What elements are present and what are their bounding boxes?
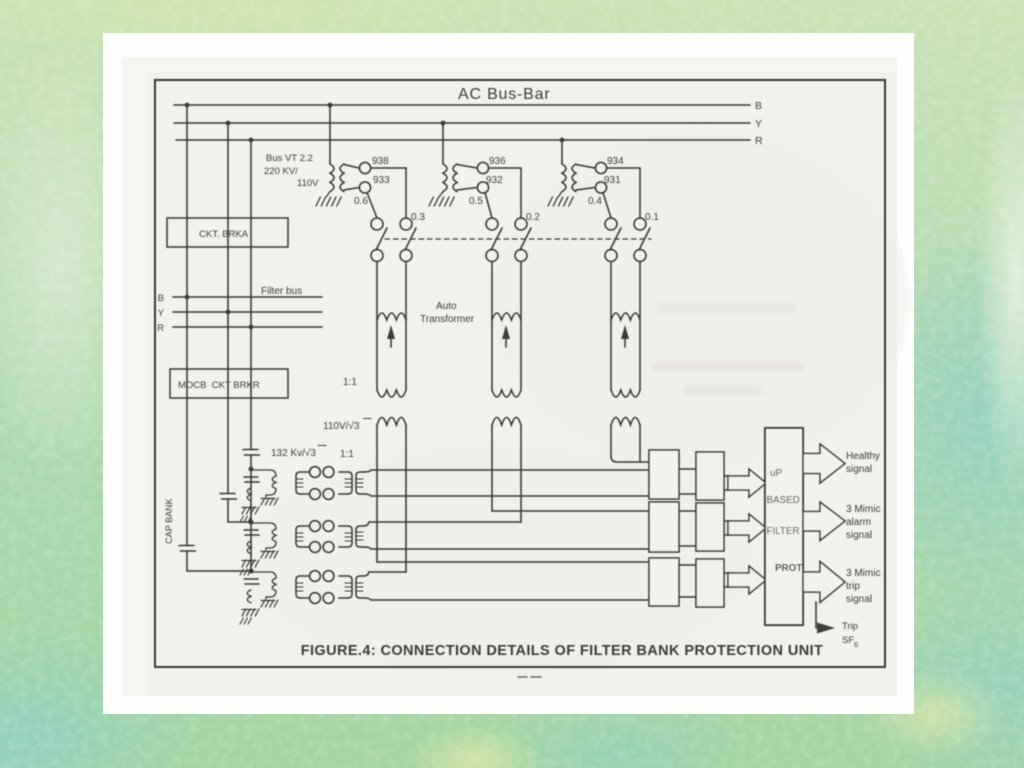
wire bus to VT 3 primary — [561, 140, 563, 164]
svg-text:trip: trip — [846, 581, 860, 592]
wire fuse 934 to right isolator pole — [607, 168, 640, 218]
interposing transformer row 2 right winding — [339, 526, 352, 547]
wire matching transformer 1 to relay A3 — [377, 561, 649, 563]
coupling circles row 2 — [310, 521, 334, 553]
svg-text:MOCB CKT BRKR: MOCB CKT BRKR — [178, 380, 260, 391]
svg-text:Bus VT 2.2: Bus VT 2.2 — [266, 153, 313, 164]
wire phase B drop to row 3 — [187, 551, 248, 571]
filter bus line Y — [173, 311, 322, 313]
isolator switch pole (group 1) at x=406 — [400, 218, 416, 320]
bus bar Y (phase Y) — [174, 122, 750, 124]
relay module box B3 — [696, 559, 724, 607]
node: VT tap on bus at x=330 — [328, 103, 333, 108]
Bus VT ratio label — [264, 153, 319, 189]
auto transformer 3 — [611, 313, 640, 397]
interposing transformer row 3 right winding — [339, 576, 352, 598]
matching transformer 1 winding — [377, 418, 406, 573]
ground marks row 3 main — [242, 609, 259, 616]
matching transformer 3 winding — [611, 418, 640, 463]
svg-text:Transformer: Transformer — [420, 314, 475, 325]
label Auto Transformer — [420, 301, 475, 325]
node: VT tap on bus at x=562 — [560, 138, 565, 143]
svg-text:BASED: BASED — [767, 495, 800, 506]
interposing transformer row 1 left winding — [296, 472, 309, 494]
coupling circles row 3 — [310, 571, 334, 604]
ground marks row 1 lower — [240, 516, 251, 522]
CVT tap branch row 2 — [251, 523, 276, 550]
fuse link 932 (bottom) — [477, 182, 488, 193]
svg-text:B: B — [158, 293, 164, 304]
bus bar B (phase B) — [174, 104, 750, 106]
svg-text:1:1: 1:1 — [343, 377, 357, 388]
relay module box B1 — [696, 452, 724, 500]
input arrow 2 into uP filter — [724, 514, 766, 542]
wire CVT stack row1 to row2 — [250, 469, 252, 522]
output arrow Healthy signal — [803, 444, 845, 483]
output winding row 1 — [356, 472, 364, 494]
svg-text:0.5: 0.5 — [469, 196, 483, 207]
wires between relay boxes row 2 — [679, 511, 696, 546]
wire VT 2 secondary to fuse 936 — [457, 165, 477, 169]
svg-text:Healthy: Healthy — [846, 451, 880, 462]
svg-text:Y: Y — [158, 308, 165, 319]
CVT junction node row 1 — [249, 467, 254, 472]
wire VT 3 secondary to fuse 934 — [576, 165, 595, 169]
fuse link 933 (bottom) — [359, 182, 370, 193]
wire bus to VT 2 primary — [442, 123, 444, 164]
interposing transformer row 2 left winding — [296, 526, 309, 547]
ground marks row 2 branch — [261, 551, 278, 558]
wires between relay boxes row 1 — [679, 469, 696, 494]
svg-text:uP: uP — [770, 468, 783, 479]
wire tap from bus B down to filter bus — [186, 105, 188, 297]
fuse link 931 (bottom) — [595, 182, 606, 193]
isolator switch pole (group 2) at x=521 — [515, 218, 531, 320]
svg-text:0.2: 0.2 — [526, 212, 540, 223]
svg-text:0.1: 0.1 — [645, 212, 659, 223]
wire tap from bus Y down to filter bus — [227, 123, 229, 312]
svg-text:931: 931 — [604, 175, 621, 186]
coupling circles row 1 — [310, 467, 334, 500]
aux winding row 1 — [247, 488, 251, 501]
white slide area — [103, 33, 914, 714]
svg-text:signal: signal — [846, 464, 872, 475]
ground below VT 1 primary — [316, 192, 341, 206]
svg-text:Y: Y — [755, 118, 762, 130]
grading capacitor row 2 — [244, 530, 259, 535]
input arrow 1 into uP filter — [724, 469, 766, 497]
input arrow 3 into uP filter — [724, 566, 766, 594]
bus VT 1 primary winding — [330, 164, 334, 192]
wire matching transformer 3 to relay A1 — [640, 461, 649, 463]
label 110V/sqrt3 — [323, 420, 360, 432]
svg-text:932: 932 — [486, 175, 503, 186]
ground marks row 2 lower — [240, 569, 251, 575]
output arrow 3 Mimic trip signal — [803, 562, 845, 603]
filter bus line B — [173, 296, 322, 298]
bus VT 2 secondary winding — [453, 164, 457, 192]
grading capacitor row 1 — [244, 477, 259, 482]
MOCB circuit breaker box — [170, 369, 288, 398]
svg-text:Trip: Trip — [842, 621, 858, 632]
svg-text:936: 936 — [489, 156, 506, 167]
isolator switch pole (group 1) at x=377 — [371, 218, 387, 320]
bus VT 2 primary winding — [443, 164, 447, 192]
wire row3 bottom to relay A3 — [364, 598, 649, 600]
svg-text:AC Bus-Bar: AC Bus-Bar — [458, 86, 550, 103]
fuse link 938 (top) — [359, 162, 370, 173]
svg-text:signal: signal — [846, 530, 872, 541]
svg-text:alarm: alarm — [846, 517, 871, 528]
interposing transformer row 3 left winding — [296, 576, 309, 598]
fuse link 934 (top) — [595, 162, 606, 173]
node: VT tap on bus at x=443 — [441, 121, 446, 126]
wire fuse 932 to left isolator pole — [485, 193, 492, 219]
output arrow 3 Mimic alarm signal — [803, 502, 845, 541]
svg-text:0.6: 0.6 — [354, 196, 368, 207]
wires between relay boxes row 3 — [679, 565, 696, 597]
svg-text:934: 934 — [607, 156, 624, 167]
schematic border frame — [155, 80, 885, 667]
isolator switch pole (group 3) at x=611 — [605, 218, 621, 320]
fuse link 936 (top) — [477, 162, 488, 173]
small mark below frame — [518, 676, 541, 678]
wire row1 bottom to relay A1 — [364, 494, 649, 496]
wire row1 top to relay A1 — [364, 470, 649, 472]
dashed interlock line across isolators — [385, 238, 651, 240]
svg-text:3 Mimic: 3 Mimic — [846, 504, 880, 515]
svg-text:B: B — [755, 100, 762, 112]
aux winding row 2 — [247, 541, 251, 554]
uP based filter protection unit box — [765, 428, 803, 625]
filter bus line R — [173, 326, 322, 328]
svg-text:1:1: 1:1 — [340, 449, 354, 460]
wire fuse 931 to left isolator pole — [603, 193, 611, 219]
relay module box A3 — [649, 558, 679, 606]
svg-text:signal: signal — [846, 594, 872, 605]
wire VT 1 secondary to fuse 933 — [344, 188, 359, 191]
auto transformer 2 — [492, 313, 521, 397]
svg-text:PROT: PROT — [775, 563, 802, 574]
svg-text:6: 6 — [854, 640, 858, 649]
interposing transformer row 1 right winding — [339, 472, 352, 494]
svg-text:CKT. BRKA: CKT. BRKA — [199, 229, 249, 240]
svg-text:R: R — [755, 135, 763, 147]
svg-text:Auto: Auto — [436, 301, 457, 312]
wires through MOCB box — [186, 297, 188, 545]
matching transformer 2 winding — [492, 418, 521, 523]
svg-text:3 Mimic: 3 Mimic — [846, 568, 880, 579]
bus VT 3 primary winding — [562, 164, 566, 192]
wire row2 top to matching transformer 2 — [364, 522, 521, 526]
svg-text:933: 933 — [373, 175, 390, 186]
wire VT 2 secondary to fuse 932 — [457, 188, 477, 191]
grading capacitor row 3 — [244, 579, 259, 584]
bus VT 3 secondary winding — [572, 164, 576, 192]
capacitor on phase B drop — [179, 546, 196, 552]
svg-text:R: R — [157, 323, 164, 334]
capacitor on phase R drop (132kV divider) — [243, 450, 260, 456]
svg-text:0.3: 0.3 — [411, 212, 425, 223]
wire VT 3 secondary to fuse 931 — [576, 188, 595, 191]
relay module box B2 — [696, 503, 724, 551]
ground marks row 3 branch — [261, 600, 278, 607]
wire row3 top to matching transformer 1 — [364, 572, 406, 576]
svg-text:132 Kv/√3: 132 Kv/√3 — [271, 447, 316, 459]
wire CVT stack row2 to row3 — [250, 522, 252, 571]
wire tap from bus R down to filter bus — [250, 140, 252, 327]
trip SF6 output wire and arrow — [816, 602, 835, 634]
ground below VT 3 primary — [548, 192, 573, 206]
ground below VT 2 primary — [429, 192, 454, 206]
CVT tap branch row 3 — [251, 572, 276, 599]
output winding row 3 — [356, 576, 364, 598]
CVT junction node row 2 — [249, 520, 254, 525]
output winding row 2 — [356, 526, 364, 547]
wire fuse 933 to left isolator pole — [367, 193, 377, 219]
isolator switch pole (group 2) at x=492 — [486, 218, 502, 320]
ground marks row 1 main — [242, 507, 259, 514]
faint ghost bleed-through marks — [652, 304, 804, 394]
auto transformer 1 — [377, 313, 406, 397]
svg-text:SF: SF — [842, 635, 854, 646]
svg-text:CAP BANK: CAP BANK — [164, 498, 174, 543]
svg-text:110V/√3: 110V/√3 — [323, 420, 360, 432]
wire matching transformer 2 to relay A2 — [492, 510, 649, 512]
wire fuse 938 to right isolator pole — [371, 168, 406, 218]
scanned paper area — [122, 57, 910, 696]
relay module box A2 — [649, 502, 679, 552]
bus bar R (phase R) — [176, 139, 750, 141]
wire row2 bottom to relay A2 — [364, 547, 649, 549]
ground marks row 1 branch — [261, 498, 278, 505]
wire bus to VT 1 primary — [329, 105, 331, 164]
svg-text:110V: 110V — [297, 178, 319, 189]
svg-text:FILTER: FILTER — [767, 526, 800, 537]
isolator switch pole (group 3) at x=640 — [634, 218, 650, 320]
CVT junction node row 3 — [249, 569, 254, 574]
wire fuse 936 to right isolator pole — [489, 168, 521, 218]
relay module box A1 — [649, 450, 679, 499]
svg-text:220 KV/: 220 KV/ — [264, 166, 298, 177]
svg-text:FIGURE.4: CONNECTION DETAILS O: FIGURE.4: CONNECTION DETAILS OF FILTER B… — [301, 643, 824, 659]
svg-text:938: 938 — [372, 156, 389, 167]
ground marks row 2 main — [242, 560, 259, 567]
bus VT 1 secondary winding — [340, 164, 344, 192]
CVT tap branch row 1 — [251, 470, 276, 497]
wire VT 1 secondary to fuse 938 — [344, 165, 359, 169]
aux winding row 3 — [247, 590, 251, 603]
ground marks row 3 lower — [240, 618, 251, 624]
capacitor on phase Y drop — [220, 494, 237, 500]
circuit breaker box CKT. BRKA — [167, 218, 288, 247]
wire phase Y drop to row 2 — [228, 499, 249, 522]
svg-text:Filter bus: Filter bus — [261, 286, 302, 297]
svg-text:0.4: 0.4 — [588, 196, 602, 207]
